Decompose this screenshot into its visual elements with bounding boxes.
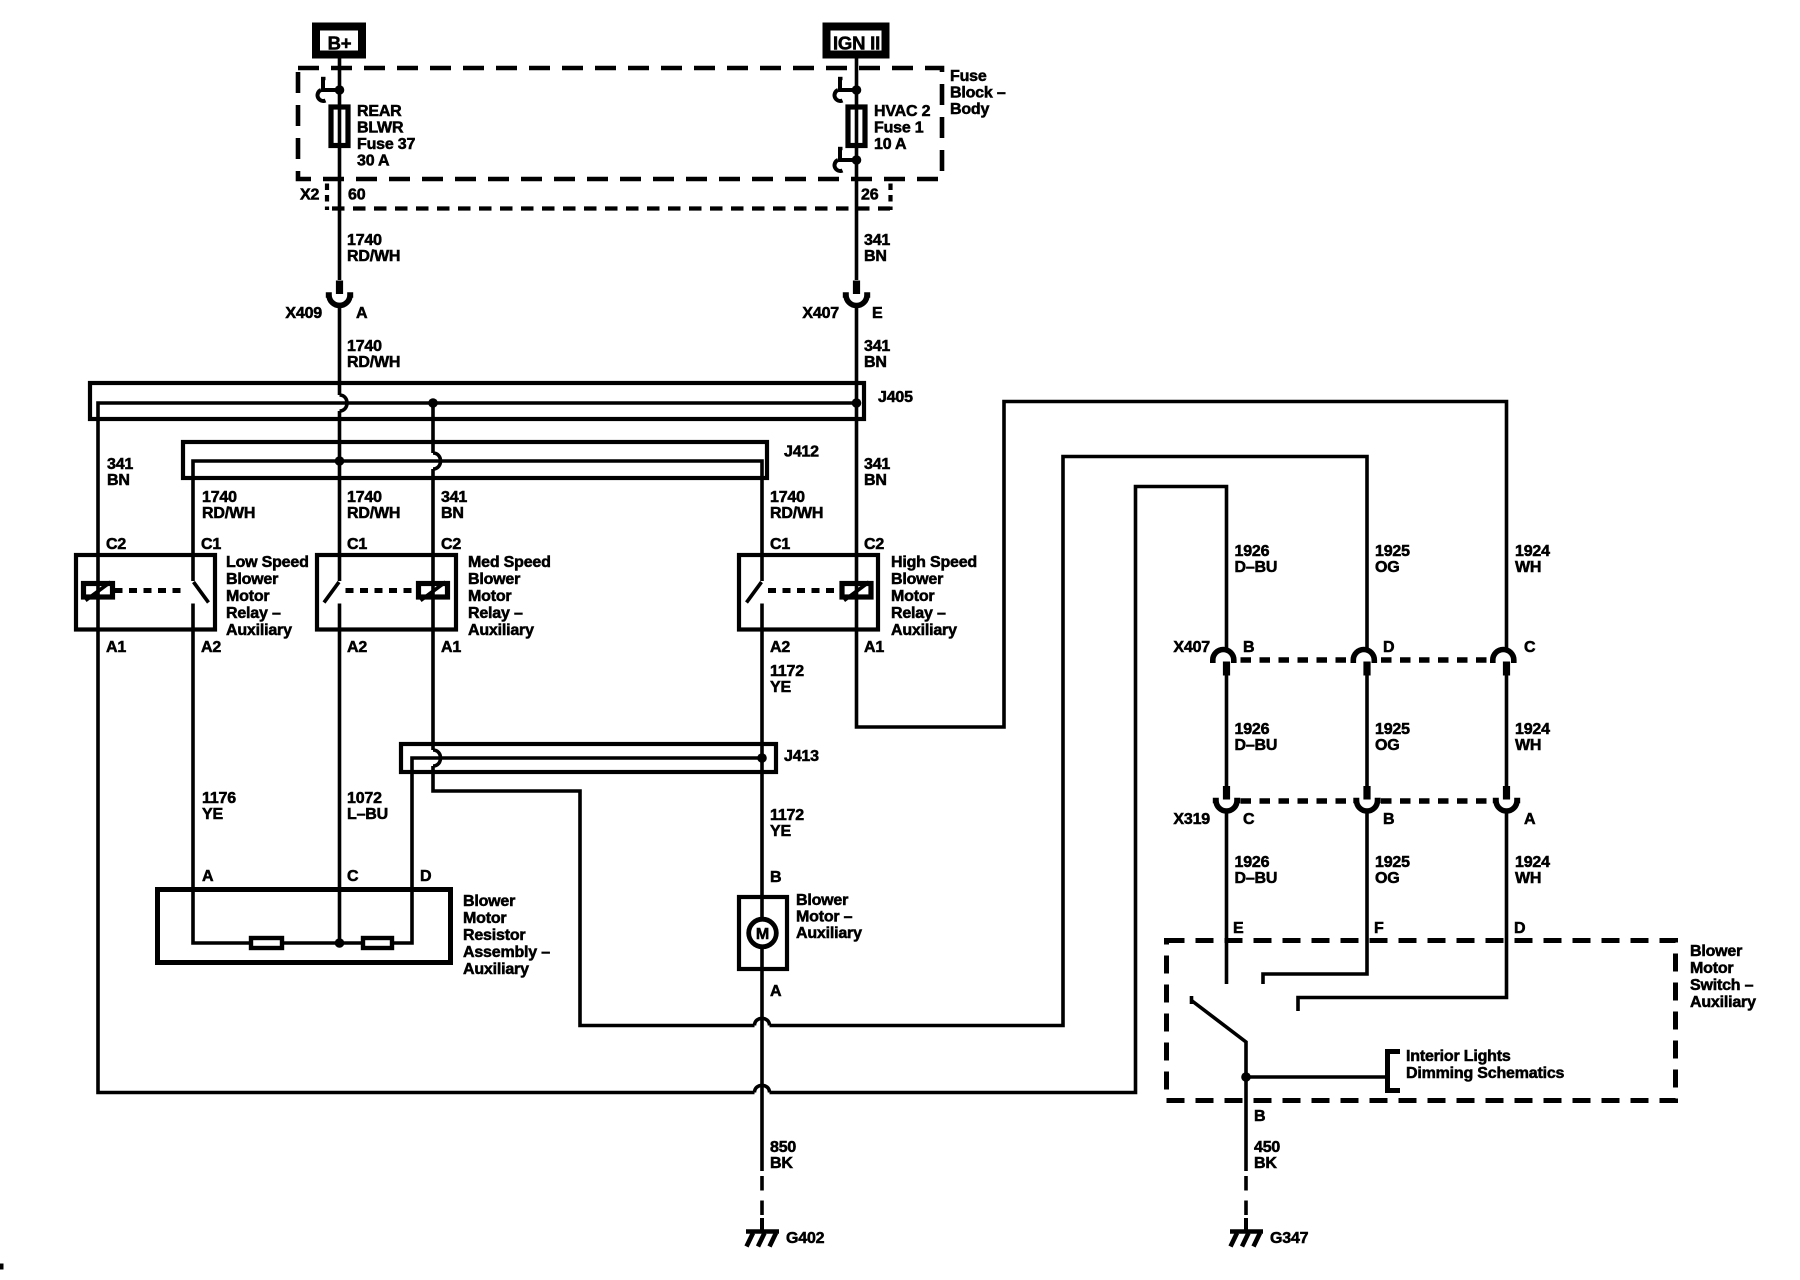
svg-text:1924: 1924 [1515, 721, 1550, 738]
svg-text:Med Speed: Med Speed [468, 554, 551, 571]
svg-text:C: C [1243, 811, 1255, 828]
svg-text:M: M [756, 926, 769, 943]
svg-text:J413: J413 [784, 748, 819, 765]
svg-text:60: 60 [348, 187, 366, 204]
svg-text:Motor: Motor [226, 588, 269, 605]
svg-text:RD/WH: RD/WH [770, 505, 823, 522]
wire 1926 D-BU between X407 and X319 [1225, 676, 1229, 787]
junction dot J405/IGN wire [852, 398, 862, 408]
svg-text:BN: BN [864, 472, 887, 489]
svg-text:BK: BK [1254, 1155, 1277, 1172]
svg-text:E: E [872, 305, 883, 322]
connector row X407 dashed link [1241, 657, 1493, 663]
wire label 1172 YE (above J413) [770, 663, 804, 696]
fuse HVAC 2 Fuse 1 10 A [848, 103, 931, 153]
svg-text:RD/WH: RD/WH [347, 354, 400, 371]
svg-text:Auxiliary: Auxiliary [468, 622, 534, 639]
svg-text:BN: BN [107, 472, 130, 489]
svg-text:10 A: 10 A [874, 136, 907, 153]
connector row label X407 [1173, 639, 1210, 656]
svg-text:Block –: Block – [950, 85, 1006, 102]
wire label 1924 WH (middle) [1515, 721, 1550, 754]
blower motor resistor assembly box [158, 890, 451, 963]
wire label 1740 RD/WH (above X409) [347, 232, 400, 265]
switch pin labels E / F / D [1233, 920, 1525, 937]
blower switch blade (wiper) [1192, 996, 1247, 1077]
relay low speed terminal labels [106, 536, 221, 656]
wire 341 BN from IGN II through fuse to J405 dot [855, 59, 859, 554]
wire label 1926 D-BU (upper) [1235, 543, 1278, 576]
svg-text:Dimming Schematics: Dimming Schematics [1406, 1065, 1565, 1082]
svg-text:Low Speed: Low Speed [226, 554, 309, 571]
svg-text:D–BU: D–BU [1235, 737, 1278, 754]
wire label 341 BN (to med relay C2) [441, 489, 467, 522]
wire 850 BK dashed lead [760, 1176, 764, 1218]
wire label 1926 D-BU (lower) [1235, 854, 1278, 887]
svg-text:B: B [1254, 1108, 1265, 1125]
connector row label X319 [1173, 811, 1210, 828]
svg-text:YE: YE [770, 823, 791, 840]
svg-text:Fuse 1: Fuse 1 [874, 120, 924, 137]
wire med relay A1 routing to 1925 OG column (hops J413 bus and motor wire) [433, 457, 1367, 1026]
wire high relay A1 routing to 1924 WH column [857, 402, 1507, 728]
junction dot J405/341BN branch [428, 398, 438, 408]
svg-text:450: 450 [1254, 1139, 1280, 1156]
svg-text:IGN II: IGN II [833, 33, 880, 54]
connector label X407 / pin E [802, 305, 883, 322]
wire label 1925 OG (upper) [1375, 543, 1410, 576]
blower motor name label [796, 892, 862, 942]
wire 1925 OG to switch F [1263, 812, 1367, 985]
svg-text:X407: X407 [802, 305, 839, 322]
svg-text:341: 341 [864, 456, 890, 473]
svg-text:Blower: Blower [1690, 943, 1742, 960]
svg-text:OG: OG [1375, 737, 1400, 754]
wire 1740 RD/WH from B+ through fuse to J405 (hops J405 bus) [340, 59, 348, 554]
splice J413 box [401, 744, 776, 772]
svg-text:341: 341 [441, 489, 467, 506]
switch pin label B [1254, 1108, 1265, 1125]
fuse block - body label [950, 68, 1006, 118]
svg-text:BN: BN [864, 248, 887, 265]
splice J412 box [183, 442, 767, 478]
svg-text:1925: 1925 [1375, 854, 1410, 871]
resistor R-med (right element) [363, 938, 392, 948]
connector pin labels C / B / A [1243, 811, 1536, 828]
svg-text:Blower: Blower [891, 571, 943, 588]
wire label 341 BN (above X407) [864, 232, 890, 265]
wire label 1924 WH (lower) [1515, 854, 1550, 887]
connector X2 strip [300, 184, 891, 211]
svg-text:A1: A1 [106, 639, 126, 656]
wire 450 BK switch B output [1244, 1077, 1248, 1171]
blower motor pin labels B / A [770, 869, 782, 1000]
wire label 1740 RD/WH (below X409) [347, 338, 400, 371]
svg-text:C2: C2 [106, 536, 126, 553]
wire label 1924 WH (upper) [1515, 543, 1550, 576]
svg-text:D–BU: D–BU [1235, 559, 1278, 576]
svg-text:REAR: REAR [357, 103, 402, 120]
svg-text:Body: Body [950, 101, 990, 118]
wire 1072 L-BU med relay A2 to resistor C [338, 632, 342, 888]
page speck (scan artifact) [0, 1264, 4, 1270]
blower motor switch name label [1690, 943, 1756, 1011]
relay high speed terminal labels [770, 536, 884, 656]
svg-text:J405: J405 [878, 389, 913, 406]
svg-text:Blower: Blower [468, 571, 520, 588]
svg-text:A: A [770, 983, 782, 1000]
svg-text:1740: 1740 [770, 489, 805, 506]
wire label 341 BN (below X407) [864, 338, 890, 371]
svg-text:C1: C1 [347, 536, 367, 553]
svg-text:1172: 1172 [770, 663, 804, 680]
svg-text:C1: C1 [201, 536, 221, 553]
inline connector X319 pin A [1493, 786, 1520, 811]
svg-text:YE: YE [202, 806, 223, 823]
svg-text:Fuse 37: Fuse 37 [357, 136, 415, 153]
svg-text:1924: 1924 [1515, 854, 1550, 871]
svg-text:1926: 1926 [1235, 721, 1270, 738]
svg-text:D–BU: D–BU [1235, 870, 1278, 887]
splice label J405 [878, 389, 913, 406]
svg-text:YE: YE [770, 679, 791, 696]
blower motor switch dashed box [1167, 941, 1676, 1101]
inline connector X407 pin B [1213, 650, 1234, 676]
svg-text:Motor: Motor [463, 910, 506, 927]
svg-text:Interior Lights: Interior Lights [1406, 1048, 1511, 1065]
svg-text:Motor: Motor [891, 588, 934, 605]
svg-text:A2: A2 [770, 639, 790, 656]
splice label J413 [784, 748, 819, 765]
interior lights dimming schematics label [1406, 1048, 1565, 1082]
wire label 1740 RD/WH (to low relay C1) [202, 489, 255, 522]
fuse block - body (dashed outline) [298, 68, 942, 179]
splice J413 bus wire 1172 YE to resistor D [412, 758, 762, 887]
connector label X409 / pin A [285, 305, 368, 322]
svg-text:C2: C2 [441, 536, 461, 553]
interior lights dimming schematics bracket [1388, 1052, 1401, 1091]
power terminal B+ [316, 27, 362, 55]
svg-text:1924: 1924 [1515, 543, 1550, 560]
wire 1926 D-BU to switch E [1225, 812, 1229, 985]
svg-text:A2: A2 [347, 639, 367, 656]
splice label J412 [784, 444, 819, 461]
relay high speed - box/coil/contacts [739, 553, 878, 632]
svg-text:RD/WH: RD/WH [347, 505, 400, 522]
relay low speed - box/coil/contacts [76, 553, 215, 632]
svg-text:850: 850 [770, 1139, 796, 1156]
wire 1924 WH to switch D [1298, 812, 1507, 1012]
svg-text:Assembly –: Assembly – [463, 944, 550, 961]
svg-text:WH: WH [1515, 559, 1541, 576]
svg-text:L–BU: L–BU [347, 806, 388, 823]
relay high speed name label [891, 554, 977, 639]
svg-text:A: A [1524, 811, 1536, 828]
ground label G347 [1270, 1230, 1309, 1247]
blower motor M circle [749, 919, 777, 947]
svg-text:OG: OG [1375, 559, 1400, 576]
svg-text:RD/WH: RD/WH [347, 248, 400, 265]
svg-text:30 A: 30 A [357, 153, 390, 170]
svg-text:Motor –: Motor – [796, 909, 853, 926]
svg-text:C: C [1524, 639, 1536, 656]
wire label 1740 RD/WH (to high relay C1) [770, 489, 823, 522]
svg-text:E: E [1233, 920, 1244, 937]
svg-text:Relay –: Relay – [891, 605, 946, 622]
svg-text:BN: BN [441, 505, 464, 522]
svg-text:Blower: Blower [463, 893, 515, 910]
svg-text:X2: X2 [300, 187, 319, 204]
wire 341 BN branch J405 to med relay C2 (hops J412 bus) [433, 403, 441, 553]
svg-text:Motor: Motor [1690, 960, 1733, 977]
connector pin labels B / D / C [1243, 639, 1536, 656]
svg-text:Auxiliary: Auxiliary [226, 622, 292, 639]
svg-text:D: D [420, 868, 431, 885]
fuse REAR BLWR Fuse 37 30 A [331, 103, 415, 170]
svg-text:OG: OG [1375, 870, 1400, 887]
svg-text:Auxiliary: Auxiliary [463, 961, 529, 978]
svg-text:A1: A1 [864, 639, 884, 656]
relay med speed - box/coil/contacts [317, 553, 456, 632]
svg-text:C2: C2 [864, 536, 884, 553]
wire label 1176 YE [202, 790, 236, 823]
resistor terminal labels A / C / D [202, 868, 431, 885]
svg-text:1072: 1072 [347, 790, 382, 807]
svg-text:341: 341 [107, 456, 133, 473]
svg-text:X319: X319 [1173, 811, 1210, 828]
svg-text:HVAC 2: HVAC 2 [874, 103, 931, 120]
svg-text:1925: 1925 [1375, 721, 1410, 738]
power terminal IGN II [827, 27, 886, 55]
wire label 1926 D-BU (middle) [1235, 721, 1278, 754]
svg-text:1925: 1925 [1375, 543, 1410, 560]
fuse HVAC 2 holder clip (bottom) [835, 149, 862, 171]
ground G347 symbol [1230, 1218, 1263, 1247]
inline connector X407 pin C [1493, 650, 1514, 676]
inline connector X319 pin C [1213, 786, 1240, 811]
svg-text:1740: 1740 [347, 232, 382, 249]
svg-text:Fuse: Fuse [950, 68, 987, 85]
svg-text:Resistor: Resistor [463, 927, 525, 944]
resistor assembly name label [463, 893, 550, 978]
svg-text:1926: 1926 [1235, 543, 1270, 560]
svg-text:A: A [202, 868, 214, 885]
svg-text:B+: B+ [328, 33, 352, 54]
svg-text:D: D [1514, 920, 1525, 937]
svg-text:B: B [770, 869, 781, 886]
resistor R-low (left element) [251, 938, 282, 948]
svg-text:High Speed: High Speed [891, 554, 977, 571]
wire 450 BK dashed lead [1244, 1176, 1248, 1218]
inline connector X407 pin E [843, 281, 870, 306]
blower motor wire through [760, 895, 764, 1171]
svg-text:1740: 1740 [202, 489, 237, 506]
svg-text:Auxiliary: Auxiliary [1690, 994, 1756, 1011]
wire label 341 BN (right, to high relay C2) [864, 456, 890, 489]
svg-text:1740: 1740 [347, 489, 382, 506]
svg-text:341: 341 [864, 232, 890, 249]
svg-text:A2: A2 [201, 639, 221, 656]
svg-text:J412: J412 [784, 444, 819, 461]
svg-text:X407: X407 [1173, 639, 1210, 656]
connector row X319 dashed link [1241, 798, 1493, 804]
fuse HVAC 2 holder clip (top) [835, 79, 862, 101]
relay med speed name label [468, 554, 551, 639]
wire label 450 BK [1254, 1139, 1280, 1172]
splice J405 box [90, 383, 864, 419]
blower motor box [739, 897, 787, 969]
wire label 1925 OG (middle) [1375, 721, 1410, 754]
ground label G402 [786, 1230, 825, 1247]
wire low relay A1 routing to 1926 D-BU column (hops motor wire) [98, 487, 1227, 1093]
junction dot resistor C tap [335, 938, 345, 948]
wire label 1172 YE (below J413) [770, 807, 804, 840]
svg-text:B: B [1383, 811, 1394, 828]
svg-text:Blower: Blower [796, 892, 848, 909]
svg-text:B: B [1243, 639, 1254, 656]
svg-text:C1: C1 [770, 536, 790, 553]
wire label 850 BK [770, 1139, 796, 1172]
svg-text:1172: 1172 [770, 807, 804, 824]
svg-text:G347: G347 [1270, 1230, 1309, 1247]
fuse REAR BLWR Fuse 37 holder clip [318, 79, 345, 101]
svg-text:BN: BN [864, 354, 887, 371]
junction dot J412/B+ wire [335, 456, 345, 466]
splice J405 bus wire 341 BN [98, 403, 857, 553]
wire label 1740 RD/WH (to med relay C1) [347, 489, 400, 522]
svg-text:D: D [1383, 639, 1394, 656]
splice J412 bus wire 1740 RD/WH [193, 461, 762, 553]
svg-text:C: C [347, 868, 359, 885]
wire switch common to interior lights bracket [1246, 1075, 1386, 1079]
resistor chain wire A-C-D [193, 887, 412, 943]
svg-text:Auxiliary: Auxiliary [891, 622, 957, 639]
svg-text:Motor: Motor [468, 588, 511, 605]
inline connector X319 pin B [1353, 786, 1380, 811]
wire label 341 BN (left, to low relay C2) [107, 456, 133, 489]
svg-text:A1: A1 [441, 639, 461, 656]
svg-text:Blower: Blower [226, 571, 278, 588]
wire 1176 YE low relay A2 to resistor A [191, 632, 195, 888]
svg-text:BK: BK [770, 1155, 793, 1172]
svg-text:X409: X409 [285, 305, 322, 322]
svg-text:BLWR: BLWR [357, 120, 404, 137]
svg-text:1176: 1176 [202, 790, 236, 807]
relay med speed terminal labels [347, 536, 461, 656]
ground G402 symbol [746, 1218, 779, 1247]
wire 1924 WH between X407 and X319 [1505, 676, 1509, 787]
svg-text:WH: WH [1515, 737, 1541, 754]
relay low speed name label [226, 554, 309, 639]
svg-text:Switch –: Switch – [1690, 977, 1754, 994]
svg-text:1926: 1926 [1235, 854, 1270, 871]
junction dot switch common [1241, 1072, 1251, 1082]
svg-text:G402: G402 [786, 1230, 825, 1247]
wire label 1925 OG (lower) [1375, 854, 1410, 887]
svg-text:26: 26 [861, 187, 879, 204]
inline connector X407 pin D [1353, 650, 1374, 676]
wire label 1072 L-BU [347, 790, 388, 823]
svg-text:RD/WH: RD/WH [202, 505, 255, 522]
svg-text:341: 341 [864, 338, 890, 355]
svg-text:Relay –: Relay – [226, 605, 281, 622]
svg-text:WH: WH [1515, 870, 1541, 887]
svg-text:Auxiliary: Auxiliary [796, 925, 862, 942]
svg-text:A: A [356, 305, 368, 322]
svg-text:Relay –: Relay – [468, 605, 523, 622]
inline connector X409 pin A [326, 281, 353, 306]
junction dot J413/high A2 wire [757, 753, 767, 763]
wire 1925 OG between X407 and X319 [1365, 676, 1369, 787]
wire 1172 YE high relay A2 to J413 dot and motor B [760, 632, 764, 896]
svg-text:F: F [1374, 920, 1384, 937]
svg-text:1740: 1740 [347, 338, 382, 355]
